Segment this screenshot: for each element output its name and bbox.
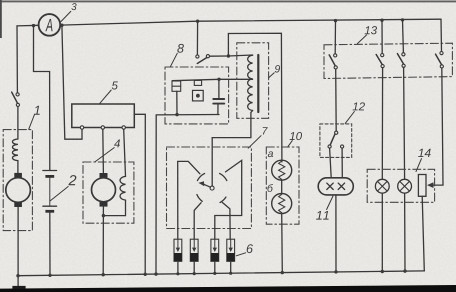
wire: ammeter right terminal down and around to relay box 5 <box>62 25 82 139</box>
wire: box5 mid terminal to motor 4 <box>102 129 105 173</box>
label 2 <box>68 175 76 185</box>
label 6 <box>247 244 253 253</box>
node: plug1 at bus <box>176 272 179 275</box>
label 4 <box>114 139 120 147</box>
wire: contact block to ground wire <box>176 91 178 114</box>
spark plug 1 <box>174 239 182 274</box>
label b <box>267 184 273 192</box>
label 10 <box>290 132 302 140</box>
wire: bus to switch B <box>381 20 383 53</box>
ammeter A (3) <box>39 14 61 36</box>
wire: NE contact to plug 3 <box>215 160 242 239</box>
node: battery-bus junction <box>48 274 51 277</box>
wire: coil bottom to motor bottom <box>103 200 125 216</box>
wire between lamps <box>281 180 283 193</box>
pointer for 10 <box>288 141 293 148</box>
horn 11 body <box>318 178 353 195</box>
wire: NW contact to plug 1 <box>178 161 200 239</box>
lamp b filament zigzag <box>279 194 285 212</box>
wire: switch to coil node <box>210 55 229 57</box>
label 14 <box>418 149 431 157</box>
starter coil <box>120 176 125 200</box>
node: lamps at bus <box>281 271 284 274</box>
wire: box5 right terminal to coil of 4 <box>124 129 126 176</box>
node: ammeter left terminal <box>32 24 35 27</box>
coil core bar <box>257 55 259 112</box>
wire: ammeter left terminal down to battery <box>34 26 50 171</box>
terminal circles of box 5 <box>80 126 83 129</box>
battery 2 cell 1 <box>43 170 57 172</box>
ignition coil box 9 dash-dot <box>237 43 269 119</box>
breaker ground wire <box>156 115 219 275</box>
breaker top wire to coil <box>172 79 252 80</box>
generator box 1 dash-dot <box>3 130 32 231</box>
spark plug 4 <box>227 239 235 273</box>
rotor arm arrow <box>203 184 210 187</box>
node: ammeter right terminal <box>60 24 63 27</box>
capacitor C <box>218 81 220 98</box>
pointer for 4 <box>95 148 115 162</box>
cam square with dot <box>193 90 204 101</box>
lamp a circle <box>272 160 292 180</box>
wire: rheostat to bus <box>422 196 424 271</box>
switch box 13 dash-dot <box>324 43 452 78</box>
switch D <box>440 52 443 55</box>
wire: generator to bus and ground <box>17 207 19 286</box>
wire: box5 right side to bus <box>134 114 145 274</box>
node: horn at bus <box>334 270 337 273</box>
label 5 <box>112 81 118 89</box>
spark plug 2 <box>190 239 198 274</box>
lamp 2 circle with x <box>398 179 412 193</box>
node: bus junction for switch B <box>380 19 383 22</box>
node: lamp1 at bus <box>381 270 384 273</box>
wire: top bus <box>60 19 441 25</box>
generator brush top <box>14 173 22 178</box>
pointer for 1 <box>29 115 35 130</box>
wire: coil secondary to distributor <box>212 111 252 187</box>
spark plug 3 <box>211 239 219 273</box>
wire: SW contact to plug 2 <box>194 203 201 240</box>
ignition switch contacts <box>196 55 199 58</box>
wires: box 12 to horn <box>330 148 332 178</box>
switch (generator circuit) <box>16 93 19 96</box>
headlamp box 14 dash-dot <box>367 169 434 202</box>
wire: switch D down to rheostat arrow <box>430 68 444 185</box>
battery 2 cell 2 <box>43 205 57 207</box>
lamp a filament zigzag <box>279 161 285 179</box>
wire: junction to coil top <box>228 55 252 56</box>
node: plug3 at bus <box>213 272 216 275</box>
label 11 <box>316 211 329 220</box>
wire: lamp 2 to bus <box>404 193 406 271</box>
lamp 1 circle with x <box>375 179 389 193</box>
node: plug4 at bus <box>229 272 232 275</box>
motor 4 brush top <box>100 173 108 178</box>
wire: bus corner to switch D <box>440 19 443 51</box>
label 13 <box>365 26 377 34</box>
horn switch box 12 dashed <box>320 124 352 157</box>
generator brush bottom <box>14 202 22 207</box>
rheostat body <box>418 175 426 197</box>
wire: bus to switch C <box>402 20 405 53</box>
wire: coil to brush <box>17 161 19 174</box>
node: bus junction for switch C <box>401 18 404 21</box>
distributor rotor circle <box>210 186 214 190</box>
left page border mark <box>0 0 2 38</box>
node: bus junction for switch A <box>334 19 337 22</box>
distributor box 7 dash-dot <box>167 147 252 229</box>
pointer for 9 <box>269 73 274 78</box>
label 8 <box>177 44 184 53</box>
label A <box>45 19 52 31</box>
breaker contact block <box>172 81 181 91</box>
distributor contact SW <box>197 195 202 202</box>
wire between cells <box>49 178 51 207</box>
node: breaker ground at bus <box>154 272 157 275</box>
node: generator-bus junction <box>16 274 19 277</box>
switch C <box>402 53 405 56</box>
pointer for 8 <box>170 53 177 67</box>
wire: horn to bus <box>335 195 337 272</box>
bottom black strip <box>0 285 456 292</box>
wire: switch C to lamp 2 <box>404 67 405 179</box>
node: bus junction ignition <box>196 20 199 23</box>
node: box4-bus junction <box>102 273 105 276</box>
switch B <box>381 54 384 57</box>
wire: lamp b to bus <box>281 214 284 273</box>
pointer for 3 <box>61 11 71 21</box>
pointer for 2 <box>50 187 68 202</box>
label a <box>268 151 273 157</box>
pointer for 12 <box>345 112 354 124</box>
terminal on breaker top wire <box>194 80 201 85</box>
node: junction at bus x145 <box>144 273 147 276</box>
distributor contact NW <box>197 173 204 180</box>
starter box 4 dash-dot <box>83 162 134 223</box>
wire: SE contact to plug 4 <box>222 203 230 240</box>
ignition coil winding <box>248 55 253 110</box>
label 7 <box>263 127 268 134</box>
node: coil feed junction <box>227 54 230 57</box>
wire: ammeter left stub <box>17 24 39 27</box>
lamp box 10 dash-dot <box>266 147 299 224</box>
horn x marks <box>327 183 345 189</box>
wire: bus to switch A <box>334 21 336 54</box>
label 1 <box>34 106 40 115</box>
node: lamp2 at bus <box>403 269 406 272</box>
motor 4 brush bottom <box>100 202 108 207</box>
label 12 <box>353 102 365 110</box>
switch A <box>334 54 337 57</box>
pointer for 7 <box>248 136 261 149</box>
node: capacitor tap <box>217 78 220 81</box>
breaker box 8 dash-dot <box>165 67 229 124</box>
lamp b circle <box>272 194 292 214</box>
wire: bottom bus <box>18 271 425 276</box>
pointer for 13 <box>357 35 366 44</box>
wire: feed drop to ignition switch <box>196 21 198 55</box>
wire: detour over coil to lamps 10 <box>228 33 282 162</box>
distributor contact SE <box>220 197 226 202</box>
wire: left drop from ammeter to switch 1 <box>16 26 18 93</box>
distributor contact NE <box>220 173 227 180</box>
ground bar <box>12 286 25 289</box>
top page border line <box>0 0 456 2</box>
generator field coil <box>12 139 17 161</box>
node: motor/coil junction <box>102 214 105 217</box>
motor 4 armature circle <box>92 178 116 202</box>
wire: motor bottom to bus <box>102 206 104 274</box>
rheostat arrowhead <box>427 182 434 188</box>
node: plug2 at bus <box>193 272 196 275</box>
wire: switch B to lamp 1 <box>381 68 383 180</box>
wire: battery to bus <box>49 213 51 276</box>
pointer for 6 <box>236 253 245 256</box>
label 9 <box>275 65 280 72</box>
wire: lamp 1 to bus <box>381 193 383 271</box>
wire: switch to generator coil <box>17 107 19 140</box>
pointer for 14 <box>416 159 422 172</box>
pointer for 11 <box>327 196 333 210</box>
node: breaker ground junction <box>175 113 178 116</box>
generator armature circle <box>6 178 31 203</box>
relay-regulator box 5 <box>72 104 135 128</box>
wire: switch A to box 12 <box>335 69 338 131</box>
pointer for 5 <box>99 90 111 104</box>
switch in box 12 <box>335 131 338 134</box>
label 3 <box>71 3 76 10</box>
